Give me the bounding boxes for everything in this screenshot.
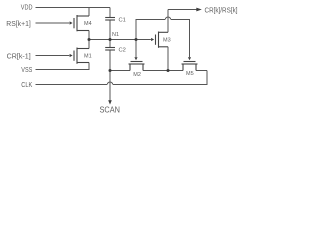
junction SCAN node [109, 69, 112, 72]
svg-text:M1: M1 [84, 54, 92, 60]
transistor M1 [74, 48, 89, 64]
svg-text:C1: C1 [119, 17, 126, 23]
wire M4 drain column [88, 8, 90, 17]
wire CLK rail right of hop [113, 71, 207, 85]
wire VDD rail [36, 7, 111, 9]
wire M2 to M3/M5 [143, 70, 183, 72]
wire output column to M3 drain [167, 10, 169, 33]
svg-text:M5: M5 [186, 71, 194, 77]
arrow SCAN output [108, 100, 112, 104]
wire M3 source column [167, 47, 169, 71]
junction M3 source wire [167, 69, 170, 72]
svg-text:N1: N1 [112, 32, 119, 38]
wire CR[k-1] to M1 gate [36, 55, 70, 57]
wire N1 branch to M5 gate [171, 20, 190, 58]
wire N1 to M2 gate [135, 40, 137, 58]
arrow output CR[k]/RS[k] [196, 8, 202, 12]
wire C2 from N1 [109, 40, 111, 48]
transistor M2 [129, 62, 145, 71]
svg-text:VSS: VSS [21, 67, 32, 74]
wire N1 branch hop over output column [165, 17, 170, 19]
wire M5 to CLK corner [196, 70, 207, 72]
svg-text:VDD: VDD [21, 5, 33, 12]
capacitor C1 [105, 18, 115, 21]
wire CLK hop over SCAN line [107, 82, 112, 84]
capacitor C2 [105, 48, 115, 51]
transistor M4 [74, 15, 89, 31]
wire C2 bottom to SCAN node [109, 50, 111, 71]
wire M1 drain column to N1 [88, 40, 90, 49]
wire output CR line [168, 9, 197, 11]
svg-text:SCAN: SCAN [100, 105, 121, 115]
transistor M3 [156, 32, 169, 48]
wire M3 gate stub [150, 39, 152, 41]
junction N1-caps [109, 38, 112, 41]
svg-text:CLK: CLK [21, 82, 32, 89]
wire SCAN output vertical [109, 71, 111, 101]
svg-text:CR[k-1]: CR[k-1] [7, 53, 31, 60]
wire M4 source column to N1 [88, 31, 90, 40]
wire C1 top connection [109, 20, 111, 40]
wire VSS rail [36, 63, 90, 70]
svg-text:M4: M4 [84, 21, 92, 27]
wire RS[k+1] to M4 gate [36, 22, 70, 24]
wire VDD drop to C1 [109, 8, 111, 18]
svg-text:RS[k+1]: RS[k+1] [6, 21, 31, 28]
wire N1 branch up [136, 20, 165, 40]
junction N1-M4/M1 [88, 38, 91, 41]
svg-text:CR[k]/RS[k]: CR[k]/RS[k] [205, 7, 238, 14]
svg-text:M3: M3 [163, 38, 171, 44]
wire SCAN node to M2 [110, 70, 130, 72]
wire CLK rail left of hop [36, 84, 108, 86]
junction N1-M2 gate branch [135, 38, 138, 41]
svg-text:C2: C2 [119, 48, 126, 54]
wire node N1 horizontal [89, 39, 151, 41]
wire M1 source column to VSS [88, 63, 90, 70]
svg-text:M2: M2 [133, 72, 141, 78]
transistor M5 [182, 62, 198, 71]
